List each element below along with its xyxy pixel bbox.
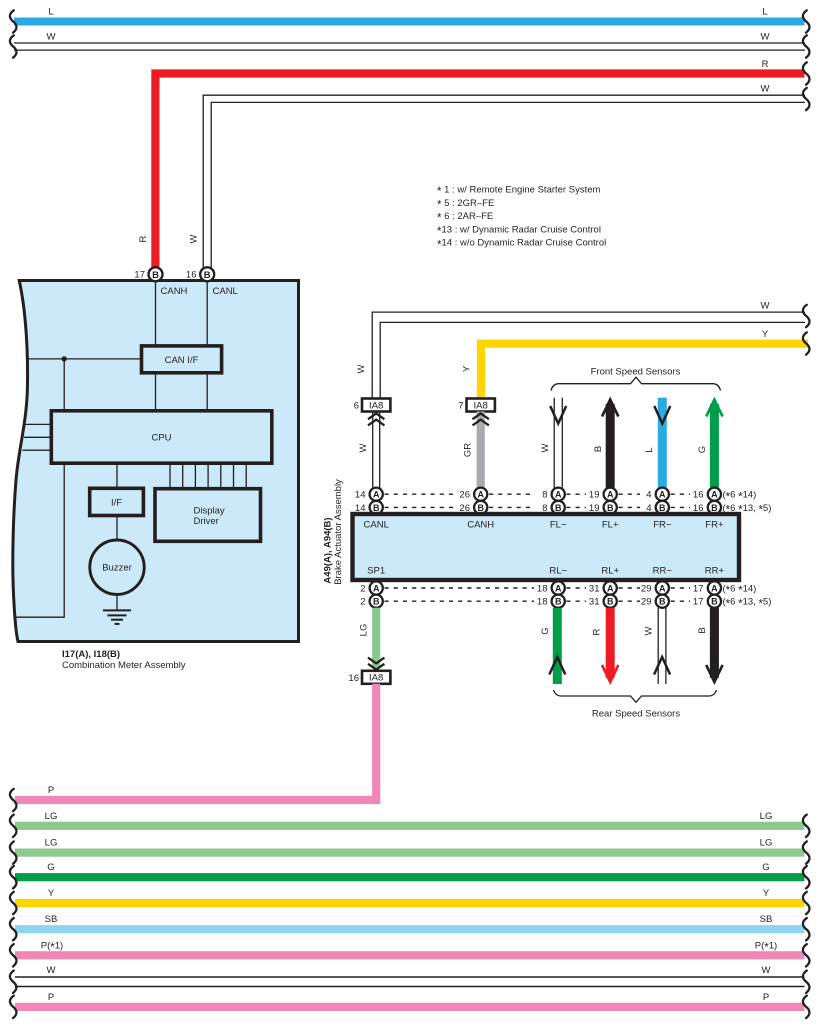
Display Driver block — [155, 489, 261, 542]
svg-text:B: B — [555, 503, 562, 513]
rear terminal row B dashes — [385, 600, 691, 602]
rear speed sensor wire B (RR+) — [706, 608, 722, 684]
svg-text:FL+: FL+ — [602, 520, 619, 531]
buzzer — [90, 540, 144, 594]
pin 31 A — [589, 581, 617, 594]
break symbol right P row9 — [803, 996, 810, 1018]
svg-text:B: B — [711, 503, 718, 513]
wire W (white double line, 2nd horizontal) — [14, 43, 805, 50]
connector pin 16(B) — [186, 267, 214, 281]
svg-text:LG: LG — [45, 811, 58, 822]
pin 18 B — [537, 595, 565, 608]
svg-text:B: B — [555, 597, 562, 607]
front speed sensor wire L (FR-) — [658, 398, 667, 488]
svg-text:CAN I/F: CAN I/F — [165, 355, 199, 366]
break symbol left P row9 — [10, 996, 17, 1018]
wire Y (yellow from right to connector 7 IA8) — [481, 344, 808, 399]
svg-text:LG: LG — [760, 811, 773, 822]
break symbol left W row8 — [10, 971, 17, 993]
break symbol left G row4 — [10, 866, 17, 888]
pin 29 B — [641, 595, 669, 608]
svg-text:6: 6 — [354, 401, 359, 412]
svg-text:W: W — [540, 443, 551, 452]
svg-text:I17(A), I18(B): I17(A), I18(B) — [62, 649, 120, 660]
svg-text:B: B — [711, 597, 718, 607]
chevrons down on wire LG — [368, 658, 384, 670]
svg-text:I/F: I/F — [111, 498, 122, 509]
svg-text:B: B — [607, 597, 614, 607]
break symbol left Y row5 — [10, 892, 17, 914]
wire LG row3 — [15, 849, 804, 857]
svg-text:B: B — [373, 503, 380, 513]
pin 14 A — [355, 488, 383, 501]
svg-text:L: L — [48, 7, 53, 18]
svg-text:W: W — [644, 626, 655, 635]
svg-text:W: W — [47, 965, 56, 976]
svg-text:17: 17 — [693, 584, 704, 595]
svg-text:W: W — [761, 84, 770, 95]
legend note — [437, 185, 606, 252]
svg-text:Front Speed Sensors: Front Speed Sensors — [591, 367, 681, 378]
break symbol left P(*1) row7 — [10, 944, 17, 966]
break symbol left SB row6 — [10, 918, 17, 940]
wire SB row6 — [15, 925, 804, 933]
wire stub left of CPU 3 — [23, 449, 52, 451]
svg-text:Buzzer: Buzzer — [102, 563, 132, 574]
svg-text:A: A — [711, 490, 718, 500]
rear speed sensor wire G (RL-) — [553, 608, 562, 684]
svg-text:18: 18 — [537, 584, 548, 595]
pin 4 A — [646, 488, 669, 501]
svg-text:GR: GR — [463, 443, 474, 457]
brake actuator assembly box A49(A),A94(B) — [353, 514, 740, 580]
svg-text:CANL: CANL — [364, 520, 389, 531]
svg-text:R: R — [762, 59, 769, 70]
svg-text:A: A — [373, 490, 380, 500]
wire stub left of CPU 2 — [24, 436, 51, 438]
wire CANL CAN I/F to CPU — [206, 373, 208, 411]
svg-text:Y: Y — [462, 365, 473, 372]
svg-text:CPU: CPU — [151, 433, 171, 444]
svg-text:B: B — [659, 597, 666, 607]
svg-text:P: P — [763, 992, 769, 1003]
wire P (pink from 16 IA8 down and left) — [15, 684, 376, 800]
pin 18 A — [537, 581, 565, 594]
front speed sensor wire G (FR+) — [706, 398, 722, 488]
svg-text:LG: LG — [45, 838, 58, 849]
svg-text:19: 19 — [589, 490, 600, 501]
wire CANH CAN I/F to CPU — [155, 373, 157, 411]
pin 19 B — [589, 501, 617, 514]
svg-text:B: B — [607, 503, 614, 513]
break symbol right G row4 — [803, 866, 810, 888]
svg-text:SP1: SP1 — [367, 566, 385, 577]
break symbol right of wire R — [803, 62, 810, 84]
svg-text:16: 16 — [693, 490, 704, 501]
chevron down on wire W FL- — [550, 406, 566, 424]
pin 17 B — [693, 595, 721, 608]
svg-text:G: G — [540, 627, 551, 634]
break symbol right Y row5 — [803, 892, 810, 914]
svg-text:18: 18 — [537, 597, 548, 608]
svg-text:31: 31 — [589, 584, 600, 595]
svg-text:A49(A), A94(B): A49(A), A94(B) — [323, 517, 334, 583]
svg-text:Y: Y — [48, 888, 55, 899]
svg-text:IA8: IA8 — [473, 400, 487, 411]
svg-text:29: 29 — [641, 584, 652, 595]
svg-text:7: 7 — [458, 401, 463, 412]
svg-text:A: A — [373, 583, 380, 593]
wire W from 6 IA8 to pin 14A — [373, 412, 380, 488]
pin 16 A — [693, 488, 721, 501]
rear speed sensor wire R (RL+) — [602, 608, 618, 684]
wire P(*1) row7 — [15, 951, 804, 959]
svg-text:G: G — [697, 446, 708, 453]
svg-text:IA8: IA8 — [369, 673, 383, 684]
wire LG from pin 2B to 16 IA8 — [372, 608, 380, 669]
svg-text:Y: Y — [762, 329, 769, 340]
break symbol right SB row6 — [803, 918, 810, 940]
svg-text:FL−: FL− — [550, 520, 567, 531]
svg-text:RL+: RL+ — [601, 566, 619, 577]
CPU block — [51, 411, 271, 463]
wire P row9 — [15, 1003, 804, 1011]
svg-text:26: 26 — [459, 490, 470, 501]
combination meter assembly box I17(A),I18(B) — [13, 281, 299, 642]
break symbol left LG row2 — [10, 815, 17, 837]
chevron down on wire L FR- — [654, 406, 670, 424]
svg-text:CANL: CANL — [213, 286, 238, 297]
svg-text:RL−: RL− — [549, 566, 567, 577]
wire W (white double line from right to connector 6 IA8) — [372, 312, 805, 398]
wire G row4 — [15, 873, 804, 881]
svg-text:P: P — [48, 992, 54, 1003]
wire junction to CPU top — [63, 359, 65, 411]
terminal row A dashes — [385, 493, 691, 495]
svg-text:CANH: CANH — [161, 286, 188, 297]
pin 29 A — [641, 581, 669, 594]
svg-text:A: A — [711, 583, 718, 593]
svg-text:A: A — [555, 490, 562, 500]
chevron up on wire W RR- — [654, 657, 670, 675]
svg-text:17: 17 — [134, 270, 145, 281]
svg-text:Driver: Driver — [194, 516, 219, 527]
front speed sensor wire W (FL-) — [554, 398, 562, 488]
pin 2 A — [360, 581, 383, 594]
wire CPU to I/F — [116, 463, 118, 488]
wire CANL vertical inside meter — [206, 282, 208, 347]
svg-text:R: R — [592, 628, 603, 635]
svg-text:L: L — [644, 447, 655, 452]
svg-text:L: L — [762, 7, 767, 18]
break symbol right W row8 — [803, 971, 810, 993]
svg-text:B: B — [204, 270, 211, 281]
svg-text:B: B — [152, 270, 159, 281]
wire I/F to buzzer — [116, 516, 118, 541]
svg-text:A: A — [659, 490, 666, 500]
front speed sensor wire B (FL+) — [602, 398, 618, 488]
connector 6 IA8 — [354, 399, 391, 412]
brace rear speed sensors — [554, 690, 717, 702]
break symbol left P row1 — [10, 789, 17, 811]
wire L (blue, top horizontal) — [14, 18, 805, 26]
pin 14 B — [355, 501, 383, 514]
svg-text:16: 16 — [348, 673, 359, 684]
svg-text:14: 14 — [355, 490, 366, 501]
svg-text:IA8: IA8 — [369, 400, 383, 411]
svg-text:W: W — [356, 364, 367, 373]
svg-text:FR−: FR− — [653, 520, 672, 531]
brace front speed sensors — [551, 377, 721, 390]
break symbol left of wire L — [10, 10, 17, 32]
svg-text:W: W — [762, 965, 771, 976]
terminal row B dashes — [385, 506, 691, 508]
wire GR from 7 IA8 to pin 26A — [477, 412, 485, 488]
svg-text:W: W — [358, 443, 369, 452]
break symbol right of wire W — [803, 88, 810, 110]
svg-text:B: B — [593, 446, 604, 452]
svg-text:W: W — [47, 32, 56, 43]
svg-text:4: 4 — [646, 490, 651, 501]
svg-text:Brake Actuator Assembly: Brake Actuator Assembly — [333, 479, 344, 585]
svg-text:FR+: FR+ — [705, 520, 724, 531]
rear terminal row A dashes — [385, 587, 691, 589]
pin 16 B — [693, 501, 721, 514]
svg-text:SB: SB — [760, 914, 773, 925]
svg-text:W: W — [761, 301, 770, 312]
wire LG row2 — [15, 822, 804, 830]
I/F block — [90, 488, 144, 515]
break symbol right of wire W — [803, 35, 810, 57]
connector pin 17(B) — [134, 267, 162, 281]
pin 2 B — [360, 595, 383, 608]
chevrons on wire GR below 7 IA8 — [473, 413, 489, 425]
chevron up on wire G RL- — [549, 657, 565, 675]
svg-text:Rear Speed Sensors: Rear Speed Sensors — [592, 709, 680, 720]
wire CPU down-left loop — [14, 463, 65, 617]
break symbol right of wire W — [803, 305, 810, 327]
svg-text:CANH: CANH — [467, 520, 494, 531]
break symbol left LG row3 — [10, 841, 17, 863]
rear speed sensor wire W (RR-) — [658, 608, 666, 684]
svg-text:B: B — [373, 597, 380, 607]
svg-text:A: A — [555, 583, 562, 593]
svg-text:W: W — [189, 234, 200, 243]
wire R (red, horizontal + vertical down to pin 17) — [155, 74, 804, 268]
svg-text:G: G — [762, 862, 769, 873]
svg-text:B: B — [659, 503, 666, 513]
svg-text:R: R — [138, 235, 149, 242]
junction dot — [61, 356, 66, 361]
svg-text:17: 17 — [693, 597, 704, 608]
pin 26 B — [459, 501, 487, 514]
wire W (white double line to pin 16) — [203, 95, 805, 267]
wire CANH vertical inside meter — [155, 282, 157, 347]
svg-text:Display: Display — [194, 506, 225, 517]
svg-text:LG: LG — [359, 624, 370, 637]
svg-text:A: A — [477, 490, 484, 500]
svg-text:G: G — [47, 862, 54, 873]
break symbol right of wire L — [803, 10, 810, 32]
svg-text:RR−: RR− — [653, 566, 673, 577]
svg-text:B: B — [697, 627, 708, 633]
pin 8 A — [542, 488, 565, 501]
break symbol left of wire W — [10, 35, 17, 57]
wire from left edge to CAN I/F — [27, 358, 142, 360]
pin 26 A — [459, 488, 487, 501]
wire buzzer to ground — [116, 594, 118, 610]
connector 7 IA8 — [458, 399, 495, 412]
break symbol right of wire Y — [803, 332, 810, 354]
break symbol right LG row2 — [803, 815, 810, 837]
svg-text:31: 31 — [589, 597, 600, 608]
svg-text:A: A — [607, 583, 614, 593]
svg-text:29: 29 — [641, 597, 652, 608]
connector 16 IA8 — [348, 671, 390, 684]
pin 31 B — [589, 595, 617, 608]
svg-text:16: 16 — [186, 270, 197, 281]
svg-text:B: B — [477, 503, 484, 513]
svg-text:RR+: RR+ — [705, 566, 725, 577]
wire Y row5 — [15, 899, 804, 907]
svg-text:SB: SB — [45, 914, 58, 925]
svg-text:A: A — [607, 490, 614, 500]
break symbol right LG row3 — [803, 841, 810, 863]
wires CPU to Display Driver (7 lines) — [170, 463, 246, 489]
svg-text:8: 8 — [542, 490, 547, 501]
pin 19 A — [589, 488, 617, 501]
svg-text:Combination Meter Assembly: Combination Meter Assembly — [62, 660, 186, 671]
svg-text:Y: Y — [763, 888, 770, 899]
svg-text:LG: LG — [760, 838, 773, 849]
ground — [103, 610, 131, 624]
pin 17 A — [693, 581, 721, 594]
svg-text:P: P — [48, 785, 54, 796]
pin 8 B — [542, 501, 565, 514]
svg-text:A: A — [659, 583, 666, 593]
chevrons on wire W below 6 IA8 — [368, 413, 384, 425]
svg-text:W: W — [761, 32, 770, 43]
pin 4 B — [646, 501, 669, 514]
svg-text:2: 2 — [360, 597, 365, 608]
wire W row8 (double line) — [15, 977, 804, 987]
CAN I/F block — [142, 346, 222, 373]
wire stub left of CPU 1 — [26, 423, 52, 425]
break symbol right P(*1) row7 — [803, 944, 810, 966]
svg-text:2: 2 — [360, 584, 365, 595]
